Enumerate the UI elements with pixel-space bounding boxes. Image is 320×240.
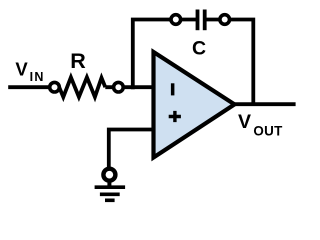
capacitor C right terminal circle	[220, 15, 230, 25]
label C	[192, 38, 206, 60]
node A terminal circle (V_IN side of R)	[50, 82, 60, 92]
node B terminal circle (summing junction)	[114, 82, 124, 92]
wire: V_IN input lead	[8, 85, 59, 89]
op-amp non-inverting input marker (plus)	[169, 111, 181, 122]
wire: feedback tap up from node B	[133, 20, 171, 90]
label V_OUT	[238, 111, 283, 139]
wire: capacitor C left lead	[169, 18, 196, 22]
resistor R	[59, 77, 105, 97]
label R	[70, 49, 86, 73]
wire: capacitor C right lead	[206, 18, 225, 22]
svg-text:V: V	[15, 59, 28, 80]
op-amp U1 triangle	[154, 52, 235, 158]
op-amp inverting input marker (minus bar)	[171, 83, 175, 95]
svg-text:I: I	[30, 70, 33, 84]
capacitor C plates	[196, 10, 207, 31]
capacitor C left terminal circle	[171, 15, 181, 25]
wire: node B to op-amp inverting input	[105, 85, 154, 89]
ground symbol	[95, 169, 126, 201]
wire: op-amp output to V_OUT	[234, 102, 296, 106]
label V_IN	[15, 59, 43, 84]
svg-text:R: R	[70, 49, 86, 73]
svg-text:V: V	[238, 111, 251, 133]
wire: feedback right side down to output node	[224, 20, 253, 105]
svg-text:N: N	[34, 70, 43, 84]
svg-text:C: C	[192, 38, 206, 60]
wire: op-amp non-inverting input to ground	[109, 130, 154, 169]
svg-text:OUT: OUT	[253, 123, 283, 138]
